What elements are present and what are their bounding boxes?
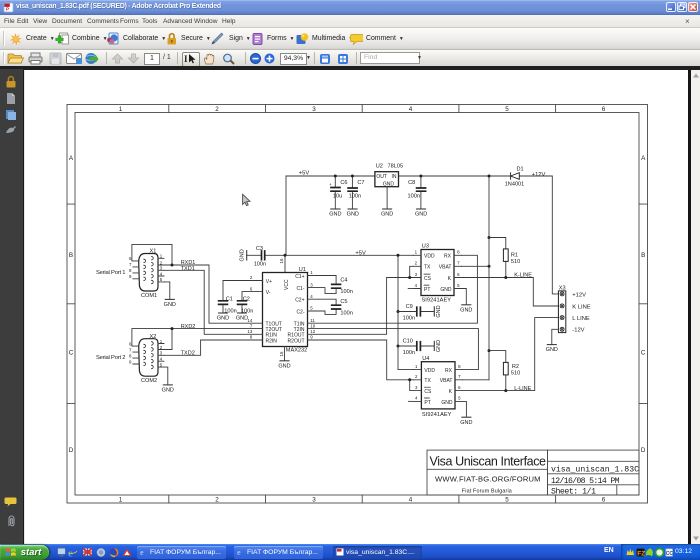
svg-text:C1-: C1- xyxy=(296,286,304,292)
svg-text:GND: GND xyxy=(436,340,442,352)
svg-text:3: 3 xyxy=(415,385,418,390)
wire U4 VBAT to +12V feed xyxy=(462,379,489,381)
svg-text:X3: X3 xyxy=(559,286,566,292)
svg-text:GND: GND xyxy=(329,212,341,218)
transceiver U4 SI9241AEY xyxy=(414,356,463,418)
svg-text:16: 16 xyxy=(279,258,284,263)
svg-text:R2: R2 xyxy=(512,364,519,370)
svg-text:9: 9 xyxy=(129,359,132,364)
svg-text:+: + xyxy=(329,182,332,187)
svg-text:SI9241AEY: SI9241AEY xyxy=(422,297,452,303)
svg-text:C: C xyxy=(69,350,74,357)
svg-text:GND: GND xyxy=(217,316,229,322)
svg-text:3: 3 xyxy=(312,106,316,113)
svg-text:8: 8 xyxy=(457,250,460,255)
svg-text:L-LINE: L-LINE xyxy=(514,386,531,392)
wire L-LINE: U4 K pin to X3 xyxy=(462,318,558,391)
drawing frame inner border xyxy=(75,113,639,496)
svg-text:2: 2 xyxy=(415,374,418,379)
svg-text:7: 7 xyxy=(458,374,461,379)
connector X3 xyxy=(558,286,590,334)
wire RXD1: X1 pin2 to U1 T1OUT xyxy=(164,265,263,323)
svg-text:5: 5 xyxy=(457,283,460,288)
svg-text:1: 1 xyxy=(119,496,123,503)
svg-text:100n: 100n xyxy=(254,261,266,267)
wire +5V top rail xyxy=(286,175,489,177)
svg-text:1N4001: 1N4001 xyxy=(505,182,525,188)
svg-text:7: 7 xyxy=(129,347,132,352)
svg-text:3: 3 xyxy=(310,282,313,287)
task buttons xyxy=(137,546,226,559)
svg-text:2: 2 xyxy=(250,275,253,280)
wire +5V mid rail to U3 VDD xyxy=(285,254,414,256)
svg-text:6: 6 xyxy=(458,385,461,390)
svg-text:CS: CS xyxy=(424,276,432,282)
toolbar row 1 xyxy=(0,28,700,50)
svg-text:+5V: +5V xyxy=(299,171,310,177)
wire U1 V+ to C1 xyxy=(223,281,263,301)
svg-text:GND: GND xyxy=(240,249,246,261)
ground under U4 xyxy=(460,417,472,426)
svg-text:TXD2: TXD2 xyxy=(181,351,195,357)
svg-text:OUT: OUT xyxy=(376,174,387,180)
svg-text:R2OUT: R2OUT xyxy=(288,338,305,344)
wire U1 V- to C2 xyxy=(242,292,263,301)
svg-text:GND: GND xyxy=(415,212,427,218)
svg-text:R1: R1 xyxy=(511,253,518,259)
U1 pin numbers xyxy=(247,270,315,356)
svg-text:6: 6 xyxy=(602,106,606,113)
wire RXD2: junction to U1 T2OUT xyxy=(172,328,263,330)
capacitor C2 xyxy=(238,297,254,315)
svg-text:K-LINE: K-LINE xyxy=(514,273,532,279)
svg-text:PT: PT xyxy=(424,400,430,406)
svg-text:2: 2 xyxy=(415,261,418,266)
svg-text:14: 14 xyxy=(247,318,252,323)
svg-text:1: 1 xyxy=(415,364,418,369)
ground at C10 (rotated) xyxy=(434,340,442,352)
svg-text:+5V: +5V xyxy=(355,251,366,257)
svg-text:VDD: VDD xyxy=(424,368,435,374)
ground under X3 xyxy=(546,345,558,354)
svg-text:GND: GND xyxy=(460,420,472,426)
svg-text:V-: V- xyxy=(266,290,271,296)
svg-text:GND: GND xyxy=(546,347,558,353)
wire X1 pin6 loop to RXD1 net xyxy=(132,244,172,265)
svg-text:7: 7 xyxy=(250,323,253,328)
svg-text:CC: CC xyxy=(666,550,673,556)
ground under U1 xyxy=(278,361,290,370)
title bar xyxy=(0,0,700,15)
quick launch icons xyxy=(57,547,133,558)
svg-text:C2-: C2- xyxy=(296,309,304,315)
op-amp U1 MAX232 body xyxy=(263,267,308,353)
svg-text:K LINE: K LINE xyxy=(572,304,590,310)
svg-text:C7: C7 xyxy=(357,180,364,186)
svg-text:+12V: +12V xyxy=(572,292,586,298)
svg-text:12: 12 xyxy=(310,329,315,334)
svg-text:8: 8 xyxy=(250,335,253,340)
svg-text:GND: GND xyxy=(347,212,359,218)
capacitor C1 xyxy=(219,297,237,315)
svg-text:B: B xyxy=(69,252,73,259)
svg-text:GND: GND xyxy=(436,305,442,317)
svg-text:U4: U4 xyxy=(422,356,429,362)
taskbar xyxy=(0,544,700,560)
svg-text:C8: C8 xyxy=(408,180,415,186)
wire U3 TX+CS to U1 R1OUT xyxy=(308,266,414,334)
svg-text:6: 6 xyxy=(250,286,253,291)
wire U2 ground pin xyxy=(386,187,388,209)
wire U3 RX to U1 T1IN xyxy=(308,255,478,323)
svg-text:8: 8 xyxy=(458,364,461,369)
svg-text:7: 7 xyxy=(457,261,460,266)
svg-text:Sheet: 1/1: Sheet: 1/1 xyxy=(551,487,596,497)
wire X3 -12V to ground xyxy=(552,329,559,344)
svg-text:IN: IN xyxy=(392,174,397,180)
capacitor C9 xyxy=(398,304,434,321)
wire X1 pin5 to ground xyxy=(164,282,170,299)
svg-text:5: 5 xyxy=(505,106,509,113)
svg-text:4: 4 xyxy=(415,283,418,288)
svg-text:12/16/08 5:14 PM: 12/16/08 5:14 PM xyxy=(551,476,620,486)
svg-text:6: 6 xyxy=(602,496,606,503)
svg-text:WWW.FIAT-BG.ORG/FORUM: WWW.FIAT-BG.ORG/FORUM xyxy=(435,474,541,483)
wire U1 GND pin 15 xyxy=(284,347,286,361)
svg-text:11: 11 xyxy=(310,318,315,323)
svg-text:GND: GND xyxy=(440,287,452,293)
svg-text:2: 2 xyxy=(215,106,219,113)
wire TXD1: X1 pin3 to U1 R1IN xyxy=(164,270,263,334)
svg-text:GND: GND xyxy=(236,316,248,322)
junction dot RXD2/pin6 xyxy=(171,327,174,330)
svg-text:100n: 100n xyxy=(349,194,361,200)
svg-text:8: 8 xyxy=(129,268,132,273)
svg-text:4: 4 xyxy=(415,396,418,401)
wire U3 VBAT to +12V feed xyxy=(462,265,490,267)
svg-text:C4: C4 xyxy=(340,278,347,284)
drawing frame outer border xyxy=(67,105,648,504)
svg-text:VBAT: VBAT xyxy=(440,378,453,384)
ground under C7 xyxy=(347,209,359,218)
svg-text:U1: U1 xyxy=(299,267,306,273)
wire X2 pin5 to ground xyxy=(164,367,168,384)
svg-text:GND: GND xyxy=(441,400,453,406)
svg-text:GND: GND xyxy=(460,307,472,313)
svg-text:100n: 100n xyxy=(340,311,352,317)
wire +12V rail D1 to X3 xyxy=(519,176,558,294)
ground under X2 xyxy=(162,385,174,394)
svg-text:15: 15 xyxy=(279,351,284,356)
svg-text:100n: 100n xyxy=(403,350,415,356)
wire TXD2: X2 pin3 to U1 R2IN xyxy=(164,340,263,355)
svg-text:9: 9 xyxy=(129,274,132,279)
svg-text:13: 13 xyxy=(247,329,252,334)
svg-text:C: C xyxy=(641,350,646,357)
svg-text:U3: U3 xyxy=(422,244,429,250)
svg-text:L LINE: L LINE xyxy=(572,316,590,322)
svg-text:D: D xyxy=(69,447,74,454)
diode D1 1N4001 xyxy=(489,166,524,187)
frame column ticks top xyxy=(169,105,556,113)
svg-text:A: A xyxy=(641,155,646,162)
X2 pin numbers xyxy=(129,339,163,368)
svg-text:C6: C6 xyxy=(340,180,347,186)
X1 pin numbers xyxy=(129,254,163,283)
svg-text:GND: GND xyxy=(383,181,395,187)
capacitor C7 xyxy=(348,176,364,209)
wire +5V rail left drop to VCC node xyxy=(285,176,287,255)
svg-text:510: 510 xyxy=(511,259,520,265)
voltage regulator U2 78L05 xyxy=(375,164,403,188)
svg-text:I: I xyxy=(184,54,188,64)
svg-text:78L05: 78L05 xyxy=(388,164,404,170)
svg-text:RX: RX xyxy=(444,254,452,260)
toolbar row 2 xyxy=(0,50,700,67)
svg-text:B: B xyxy=(641,252,645,259)
svg-text:5: 5 xyxy=(505,496,509,503)
svg-text:RXD2: RXD2 xyxy=(181,324,196,330)
svg-text:+12V: +12V xyxy=(532,172,546,178)
svg-text:TX: TX xyxy=(424,378,431,384)
wire +12V vertical feed to VBAT/R1/R2 xyxy=(488,176,490,380)
svg-text:9: 9 xyxy=(310,335,313,340)
wire U4 PT open xyxy=(408,400,414,402)
wire U4 GND pin5 to ground xyxy=(462,401,466,416)
capacitor C6 xyxy=(329,176,348,209)
wire +5V drop to C9/C10/U4 VDD xyxy=(398,255,414,369)
svg-text:C3: C3 xyxy=(256,246,263,252)
svg-text:D1: D1 xyxy=(517,166,524,172)
frame row ticks left xyxy=(67,204,75,403)
capacitor C5 xyxy=(308,299,353,317)
svg-text:C2: C2 xyxy=(243,297,250,303)
svg-text:TXD1: TXD1 xyxy=(181,266,195,272)
svg-text:P: P xyxy=(6,7,9,12)
svg-text:visa_uniscan_1.83C: visa_uniscan_1.83C xyxy=(551,465,639,475)
transceiver U3 SI9241AEY xyxy=(414,244,462,304)
svg-text:e: e xyxy=(237,548,241,556)
svg-text:X2: X2 xyxy=(150,334,157,340)
svg-text:GND: GND xyxy=(278,363,290,369)
svg-text:Visa Uniscan Interface: Visa Uniscan Interface xyxy=(430,455,547,469)
svg-text:6: 6 xyxy=(457,272,460,277)
title block frame xyxy=(427,450,639,495)
wire U3 GND pin5 to ground xyxy=(462,289,467,305)
ground under C2 xyxy=(236,313,248,322)
svg-text:U2: U2 xyxy=(376,164,383,170)
svg-text:C5: C5 xyxy=(340,299,347,305)
ground under C8 xyxy=(415,209,427,218)
svg-text:X1: X1 xyxy=(150,249,157,255)
navigation sidebar xyxy=(0,69,24,544)
wire X2 pin6 loop to RXD2 net xyxy=(132,329,172,350)
svg-text:e: e xyxy=(140,548,144,556)
wire U1 VCC pin 16 xyxy=(284,255,286,272)
svg-text:4: 4 xyxy=(409,106,413,113)
node GND at C3 (rotated) xyxy=(240,249,247,261)
svg-text:TX: TX xyxy=(424,265,431,271)
wire K-LINE: U3 K pin to X3 xyxy=(462,278,559,307)
svg-text:4: 4 xyxy=(310,294,313,299)
svg-text:CS: CS xyxy=(424,389,432,395)
svg-text:FZ: FZ xyxy=(637,550,645,557)
svg-text:GND: GND xyxy=(381,212,393,218)
connector X2 serial port DB9 xyxy=(96,334,164,384)
ground under U3 xyxy=(460,305,472,314)
wire U4 RX to U1 T2IN xyxy=(308,329,479,370)
svg-text:Serial Port 2: Serial Port 2 xyxy=(96,355,126,361)
frame row ticks right xyxy=(639,204,648,403)
dark strip above document xyxy=(0,66,700,70)
svg-text:4: 4 xyxy=(409,496,413,503)
resistor R1 510 xyxy=(489,238,520,278)
ground under C1 xyxy=(217,313,229,322)
svg-text:RX: RX xyxy=(445,368,453,374)
svg-text:1: 1 xyxy=(119,106,123,113)
svg-text:GND: GND xyxy=(164,302,176,308)
svg-text:100n: 100n xyxy=(403,315,415,321)
svg-text:100n: 100n xyxy=(340,289,352,295)
svg-text:V+: V+ xyxy=(266,279,272,285)
svg-text:COM2: COM2 xyxy=(141,378,157,384)
frame column ticks bottom xyxy=(169,495,556,503)
svg-text:1: 1 xyxy=(415,250,418,255)
svg-text:K: K xyxy=(449,389,453,395)
capacitor C4 xyxy=(308,276,353,296)
wire U4 TX+CS to U1 R2OUT xyxy=(308,340,414,391)
connector X1 serial port DB9 xyxy=(96,249,164,299)
svg-text:C10: C10 xyxy=(403,339,413,345)
menu bar xyxy=(0,15,700,28)
svg-text:PT: PT xyxy=(424,287,430,293)
svg-text:MAX232: MAX232 xyxy=(286,348,307,354)
capacitor C10 xyxy=(398,339,434,356)
ground under C6 xyxy=(329,209,341,218)
svg-text:C1: C1 xyxy=(226,297,233,303)
svg-text:-12V: -12V xyxy=(572,328,584,334)
ground under U2 xyxy=(381,209,393,218)
junction dots mid rail xyxy=(284,254,400,348)
svg-text:C1+: C1+ xyxy=(295,274,304,280)
svg-text:5: 5 xyxy=(458,396,461,401)
svg-text:A: A xyxy=(69,155,74,162)
svg-text:SI9241AEY: SI9241AEY xyxy=(422,412,452,418)
capacitor C3 xyxy=(247,246,285,267)
svg-text:10: 10 xyxy=(310,323,315,328)
ground at C9 (rotated) xyxy=(434,305,442,317)
svg-text:7: 7 xyxy=(129,262,132,267)
mouse cursor xyxy=(243,194,250,205)
svg-text:VDD: VDD xyxy=(424,254,435,260)
svg-text:2: 2 xyxy=(215,496,219,503)
svg-text:3: 3 xyxy=(415,272,418,277)
junction dots on +5V/+12V rails xyxy=(334,175,491,353)
resistor R2 510 xyxy=(489,351,520,391)
svg-text:1: 1 xyxy=(310,270,313,275)
junction dot RXD1/pin6 xyxy=(171,264,174,267)
svg-text:510: 510 xyxy=(511,370,520,376)
svg-text:K: K xyxy=(448,276,452,282)
svg-text:C9: C9 xyxy=(406,304,413,310)
svg-text:3: 3 xyxy=(312,496,316,503)
wire U3 PT open xyxy=(408,288,413,290)
ground under X1 xyxy=(164,299,176,308)
svg-text:VCC: VCC xyxy=(284,279,290,290)
tray xyxy=(604,547,614,554)
svg-text:10u: 10u xyxy=(333,194,342,200)
capacitor C8 xyxy=(408,176,426,209)
svg-text:D: D xyxy=(641,447,646,454)
svg-text:VBAT: VBAT xyxy=(439,265,452,271)
svg-text:Fiat Forum Bulgaria: Fiat Forum Bulgaria xyxy=(462,488,512,494)
svg-text:GND: GND xyxy=(162,388,174,394)
svg-text:Serial Port 1: Serial Port 1 xyxy=(96,270,126,276)
svg-text:8: 8 xyxy=(129,353,132,358)
svg-text:COM1: COM1 xyxy=(141,293,157,299)
svg-text:C2+: C2+ xyxy=(295,298,304,304)
svg-text:5: 5 xyxy=(310,306,313,311)
svg-text:R2IN: R2IN xyxy=(266,338,278,344)
svg-text:100n: 100n xyxy=(408,194,420,200)
